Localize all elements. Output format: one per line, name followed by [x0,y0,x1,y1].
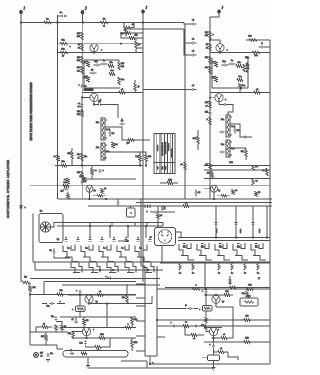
resistor R64 [97,291,103,296]
shield box [63,351,128,358]
wire T8 gnd [213,349,215,368]
switch resistor R5 [244,263,246,275]
switch resistor R3 [218,263,220,275]
input terminal J2 [81,7,87,23]
capacitor C11 [109,130,115,137]
capacitor C32 [76,290,81,296]
wire y270 left [35,269,163,270]
wire corner to caps [184,23,190,25]
wire rail D [142,23,144,283]
svg-text:a2: a2 [104,188,106,190]
wire bus y206 [88,205,272,207]
resistor R48 [262,168,268,176]
svg-text:25: 25 [62,56,64,58]
wire stub y38 [140,37,143,39]
resistor R93 [54,155,60,161]
svg-text:43a: 43a [77,71,80,73]
wire y92 link right [210,89,270,94]
switch tick L2 [76,237,79,242]
resistor R90 [244,338,250,344]
resistor R12 [135,38,141,53]
resistor R51 [180,162,186,170]
transistor Q2 [81,93,102,104]
wire y368 right [147,367,213,369]
label X [258,278,260,280]
wire y179 [82,178,136,180]
node rail b junction [81,110,82,111]
switch contact L4 [117,245,132,262]
svg-text:11a: 11a [50,353,53,355]
resistor R38 [211,76,217,82]
switch tick L8 [148,237,151,242]
resistor R35 [205,56,212,64]
capacitor C29 [157,305,198,310]
transistor Q4 [209,94,227,105]
resistor R58 [183,203,189,208]
transistor Q5 [86,185,96,200]
node y43 junction [120,43,121,44]
resistor R37 [212,61,218,67]
wire bus y199 [58,198,272,200]
resistor R10 [121,30,140,35]
rotary switch S1 [39,211,63,243]
wire stub y52 [136,52,143,54]
resistor R67 [83,317,89,328]
switch contact L2-5 [143,262,154,273]
wire stage1 feed [58,43,144,45]
capacitor C6 [94,61,101,66]
resistor R87 [201,325,207,332]
wire x205 drop [204,263,206,290]
capacitor C40 [105,198,119,206]
resistor R42 [239,84,246,93]
svg-text:aa: aa [85,86,87,88]
wire tone out [105,127,150,140]
small box R [202,355,220,361]
DIN connector socket [151,228,176,246]
wire y338 [73,337,136,339]
capacitor C13 [81,179,88,184]
resistor R63 [185,326,204,340]
wire right top [246,39,270,41]
resistor R61 [192,285,200,291]
svg-text:1a: 1a [231,273,233,275]
subtitle text input filter tone compensation stages (vertical) [30,82,33,140]
wire y303 [89,296,152,304]
wire stub C4 [136,320,145,322]
switch tick L4 [100,237,103,242]
wire right y165 [204,162,270,166]
resistor R70 [86,338,111,352]
resistor R68 [68,331,74,339]
resistor R72 [131,338,138,351]
resistor R54 [79,176,85,182]
wire bus pair left [57,223,163,227]
svg-text:a2: a2 [193,338,195,340]
svg-text:126: 126 [77,111,80,113]
input terminal J4 [218,7,224,14]
wire bus y202 [136,202,272,204]
resistor R18 [118,77,125,85]
resistor R62 [183,322,189,328]
follower box [240,296,258,307]
svg-text:138: 138 [201,325,204,327]
svg-text:C+3: C+3 [79,343,82,345]
resistor R53 [67,192,70,200]
resistor R26 [77,171,84,179]
resistor R65 [122,284,128,304]
switch contact L2-3 [107,262,118,273]
legend box [154,134,175,174]
vertical label 1 [216,229,218,233]
wire y278 [30,278,160,280]
switch tick R1 [183,244,186,246]
wire rotary in [32,214,34,263]
pilot circle [33,352,43,357]
resistor R84 [242,289,248,298]
switch tick R4 [237,244,240,246]
capacitor C34 [79,341,86,348]
capacitor C4 [190,39,197,45]
connector pins mid [145,205,150,214]
wire tone rail [81,99,83,165]
svg-text:a: a [199,309,200,311]
resistor R96 [93,195,106,197]
svg-text:202: 202 [248,285,251,287]
resistor R69 [99,334,105,339]
resistor R31 [205,31,214,39]
wire right y170 [204,169,270,171]
capacitor C30 [170,322,176,327]
capacitor C20 [243,136,248,139]
svg-text:a: a [66,237,67,239]
follower box L [72,295,85,317]
wire rail C [81,23,83,200]
resistor R78 [55,325,58,332]
wire x88 gnd [87,357,89,365]
capacitor C35 [42,301,65,308]
resistor R92 [125,324,131,329]
resistor R6 [77,32,84,40]
svg-text:aaaa: aaaa [240,229,242,233]
resistor R19 [134,80,141,93]
svg-text:103: 103 [41,336,44,338]
svg-text:t-aa: t-aa [183,246,186,249]
svg-text:aaaaaa: aaaaaa [157,145,159,151]
resistor R94 [91,166,97,180]
resistor R88 [212,320,234,339]
resistor R75 [29,286,36,333]
resistor R5 [60,49,68,58]
switch tick R5 [255,244,258,246]
wire DIN out [176,232,182,238]
wire bus box [141,199,157,356]
wire right step [228,352,238,360]
svg-text:a: a [78,237,79,239]
wire tone bottom [55,165,147,166]
svg-text:aaaa a aaa: aaaa a aaa [171,149,173,158]
resistor R28 [63,182,69,187]
wire y364 bus [149,363,270,364]
svg-text:t-aa: t-aa [237,246,240,249]
wire y332 [30,331,68,333]
resistor R2 [100,19,108,28]
switch contact R2 [197,243,212,260]
wire y342 right [204,341,270,343]
wire y285 left [62,284,160,286]
svg-text:a: a [128,324,129,326]
bass pot R [221,115,235,137]
arrow mark 2 [118,240,129,242]
svg-text:aaa: aaa [157,167,159,170]
svg-text:≡: ≡ [102,170,103,172]
switch resistor R1 [179,263,181,275]
wire rotary out [51,223,57,228]
resistor R17 [84,60,125,70]
capacitor C9 [78,102,84,109]
switch resistor R6 [257,263,259,275]
wire y295 right [204,294,233,296]
node top junction [142,22,143,23]
transistor Q3 [209,39,228,52]
resistor R34 [252,51,260,57]
wire rail F [209,17,211,199]
wire stub C3 [136,305,145,307]
svg-text:50: 50 [206,48,208,50]
capacitor C8 [90,70,97,75]
svg-text:dg: dg [93,190,95,192]
switch contact R1 [179,243,194,260]
resistor R91 [214,348,229,353]
vertical label 2 [240,229,242,233]
capacitor C37 [47,353,53,357]
svg-text:131: 131 [225,291,228,293]
transistor Q1 [90,44,103,54]
resistor R33 [248,36,256,42]
switch tick L7 [136,237,139,242]
wire rail B [57,15,59,199]
wire right tone mid [230,147,246,149]
svg-text:aaaaa aaaa aa: aaaaa aaaa aa [165,142,167,154]
svg-text:1a: 1a [218,273,220,275]
wire stage2 box [212,58,248,88]
svg-text:aa: aa [185,322,187,324]
switch resistor R2 [192,263,194,275]
resistor R21 [127,139,135,145]
svg-text:a5: a5 [256,89,258,91]
resistor R24 [67,148,73,165]
wire drop 3 [127,225,128,238]
svg-text:R13: R13 [100,334,103,336]
switch contact L3 [99,245,114,262]
svg-text:aaaa: aaaa [165,166,167,170]
resistor R14 [83,76,89,82]
wire stub C6 [136,350,145,352]
resistor R97 [218,195,231,197]
switch tick R3 [219,244,222,246]
arrow mark [105,276,111,279]
svg-text:110: 110 [86,320,89,322]
switch tick L1 [64,237,67,242]
svg-text:1-a: 1-a [67,248,70,250]
wire x150 drop [149,356,151,364]
wire shield feed [57,345,63,349]
wire mid bottom [30,184,160,186]
transistor Q6 [204,185,220,200]
resistor R99 [252,179,258,185]
capacitor C14 [190,85,197,91]
svg-text:t-aa: t-aa [255,246,258,249]
resistor R83 [224,291,230,296]
wire sw region top [57,180,59,199]
capacitor C39 [209,338,214,348]
svg-text:R15: R15 [134,342,137,344]
capacitor C5 [190,51,197,57]
wire drop 2 [109,225,110,238]
wire y327 [60,327,136,329]
wire y89 link [143,89,190,91]
resistor R55 [101,188,106,194]
capacitor C24 [60,188,68,193]
wire drop R1 [215,206,218,238]
svg-text:CONTINENTAL STEREO AMPLIFIER: CONTINENTAL STEREO AMPLIFIER [7,160,10,218]
capacitor C31 [194,325,198,328]
switch contact L2 [81,245,96,262]
treble pot R [221,140,236,157]
bass pot [96,118,110,140]
resistor R15 [108,62,114,67]
treble pot [96,143,111,160]
svg-text:INPUT FILTER TONE COMPENSATION: INPUT FILTER TONE COMPENSATION STAGES [30,82,33,140]
capacitor C43 [78,84,86,88]
transistor T8 [206,328,219,339]
svg-text:113: 113 [245,316,248,318]
resistor R77 [36,324,52,333]
capacitor C18 [205,110,211,117]
svg-text:107: 107 [40,353,43,355]
resistor R60b [229,276,231,284]
follower box R2 [199,295,212,317]
wire drop R2 [235,206,238,238]
resistor R23 [140,152,152,166]
svg-text:a: a [213,34,214,36]
wire stage1 bottom [58,52,137,54]
svg-text:a4: a4 [206,106,208,108]
wire y317 [60,316,136,318]
wire y368 [88,367,147,369]
vertical label 3 [259,229,261,233]
capacitor C3 [190,20,197,26]
svg-text:a: a [72,309,73,311]
svg-text:a4: a4 [256,181,258,183]
svg-text:1-a: 1-a [121,248,124,250]
wire stage1 box [84,60,120,88]
input socket mark [20,206,27,210]
resistor R8 [77,56,84,64]
switch contact R5 [251,243,266,260]
wire rail E [184,24,186,199]
wire drop R4 [266,206,267,238]
wire y262 [33,261,270,263]
capacitor C10 [93,101,118,118]
input terminal J3 [142,7,148,23]
capacitor C2 [120,30,127,37]
diode D1 [162,206,165,210]
resistor R25 [77,153,87,161]
svg-text:c: c [218,329,219,331]
wire stub C1 [136,283,145,285]
switch contact L2-2 [89,262,100,273]
svg-text:aad: aad [231,126,234,128]
svg-text:47: 47 [72,319,74,321]
wire y92 link [82,89,143,94]
capacitor C44 [219,103,233,115]
ground G1 [46,360,50,362]
resistor R45 [241,148,248,160]
svg-text:a5: a5 [121,89,123,91]
capacitor C7 [101,60,108,65]
resistor R89 [244,316,250,322]
resistor R81 [81,352,87,355]
wire drop 1 [89,225,90,238]
wire left col drop [34,262,36,270]
svg-text:a7: a7 [43,324,45,326]
wire y212 stub [150,211,175,213]
capacitor C1 [58,12,67,17]
resistor R76 [57,290,63,296]
transistor T7 [212,294,225,307]
resistor R71 [131,317,137,328]
wire treble out [105,151,140,153]
svg-text:1a: 1a [41,356,43,358]
label 52 [57,239,60,241]
label bar [84,89,93,91]
wire y287 right [165,287,270,289]
wire box right 3 [157,336,165,338]
resistor R13 [84,61,90,67]
capacitor C17 [229,60,236,65]
switch contact R3 [215,243,230,260]
resistor R98 [252,166,258,170]
svg-text:50: 50 [78,48,80,50]
resistor R40 [243,64,250,72]
capacitor C33 [72,317,79,323]
capacitor C16 [222,61,229,66]
resistor R50 [160,180,178,185]
wire y361 [121,361,147,368]
svg-text:aa: aa [95,170,97,172]
svg-text:a: a [138,237,139,239]
wire y281 stub [44,282,136,295]
ground G2 [86,366,90,368]
resistor R56 [232,190,238,195]
svg-text:1a: 1a [192,273,194,275]
svg-text:a: a [102,237,103,239]
svg-text:500: 500 [77,114,80,116]
resistor R1 [44,19,51,24]
wire x162 drop [161,246,163,264]
wire bus y237 [178,237,270,239]
capacitor C19 [234,127,240,134]
svg-text:aaaa: aaaa [259,229,261,233]
junction tick [152,362,154,364]
wire mid stub [124,28,184,30]
wire y295 [68,294,136,296]
svg-text:101: 101 [60,290,63,292]
resistor R41 [237,76,243,81]
svg-text:ana: ana [78,106,81,108]
capacitor C12 [120,118,125,125]
